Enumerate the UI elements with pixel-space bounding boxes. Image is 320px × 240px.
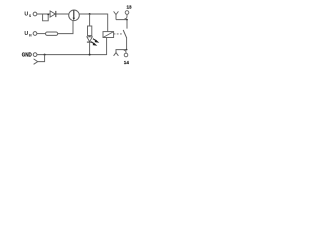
label U_in [24,31,32,38]
pin 13 stem and hook [125,14,128,18]
terminal 14 [124,53,128,57]
resistor R1 [46,32,58,35]
wire rail to coil [106,38,108,56]
component box under wire [43,14,49,21]
wire row1 right [79,13,107,15]
LED D2 [87,36,92,55]
svg-text:U: U [24,31,28,37]
svg-text:13: 13 [127,5,133,10]
contact bus top [116,20,127,29]
LED arrow 2 [91,42,97,46]
node row1 [89,13,91,15]
svg-text:GND: GND [22,52,32,58]
wire down to coil [107,14,109,32]
terminal GND [33,53,37,57]
diode D1 [50,11,56,17]
terminal 13 [125,11,129,15]
contact blade [123,30,126,38]
node contact top [126,19,128,21]
wire junction to resistor R2 [89,14,91,26]
LED arrow 1 [93,39,99,43]
node rail left [44,54,46,56]
node contact bottom [126,49,128,51]
relay coil K1 [103,32,114,38]
bridge fork lower-right [114,53,119,56]
node rail mid [89,54,91,56]
svg-text:14: 14 [124,60,130,65]
resistor R2 [88,26,92,36]
contact lower line [126,37,128,49]
wire to current source [58,21,73,34]
terminal U_s [33,12,37,16]
bridge fork lower-left [34,55,45,65]
terminal U_in [33,32,37,36]
mechanical linkage [114,33,123,35]
contact bus bottom [116,50,127,53]
node at box right [47,14,49,16]
ground rail [37,54,107,56]
wire U_in row [37,33,46,35]
wire U_s row [37,13,69,15]
pin 14 stem and hook [124,50,126,53]
svg-text:U: U [24,12,28,18]
bridge fork upper-right [114,11,119,19]
label U_s [24,12,32,18]
current source U1 [69,10,80,21]
